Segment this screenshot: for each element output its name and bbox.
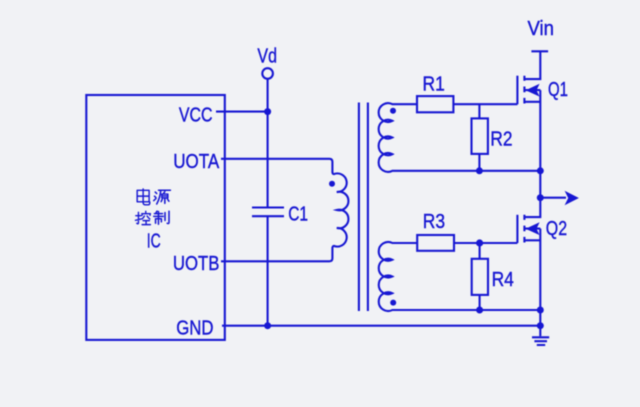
svg-text:GND: GND (176, 317, 213, 339)
svg-text:R2: R2 (490, 129, 512, 151)
svg-text:R4: R4 (492, 269, 514, 291)
svg-text:R1: R1 (423, 73, 445, 95)
svg-text:Q2: Q2 (546, 218, 567, 240)
svg-text:IC: IC (147, 231, 161, 253)
svg-text:Vin: Vin (528, 18, 555, 40)
svg-text:Q1: Q1 (548, 79, 568, 101)
svg-text:UOTA: UOTA (173, 151, 220, 173)
svg-text:UOTB: UOTB (173, 253, 220, 275)
svg-text:Vd: Vd (257, 45, 277, 67)
svg-text:VCC: VCC (179, 105, 213, 127)
svg-text:R3: R3 (423, 211, 445, 233)
svg-text:C1: C1 (288, 203, 308, 225)
